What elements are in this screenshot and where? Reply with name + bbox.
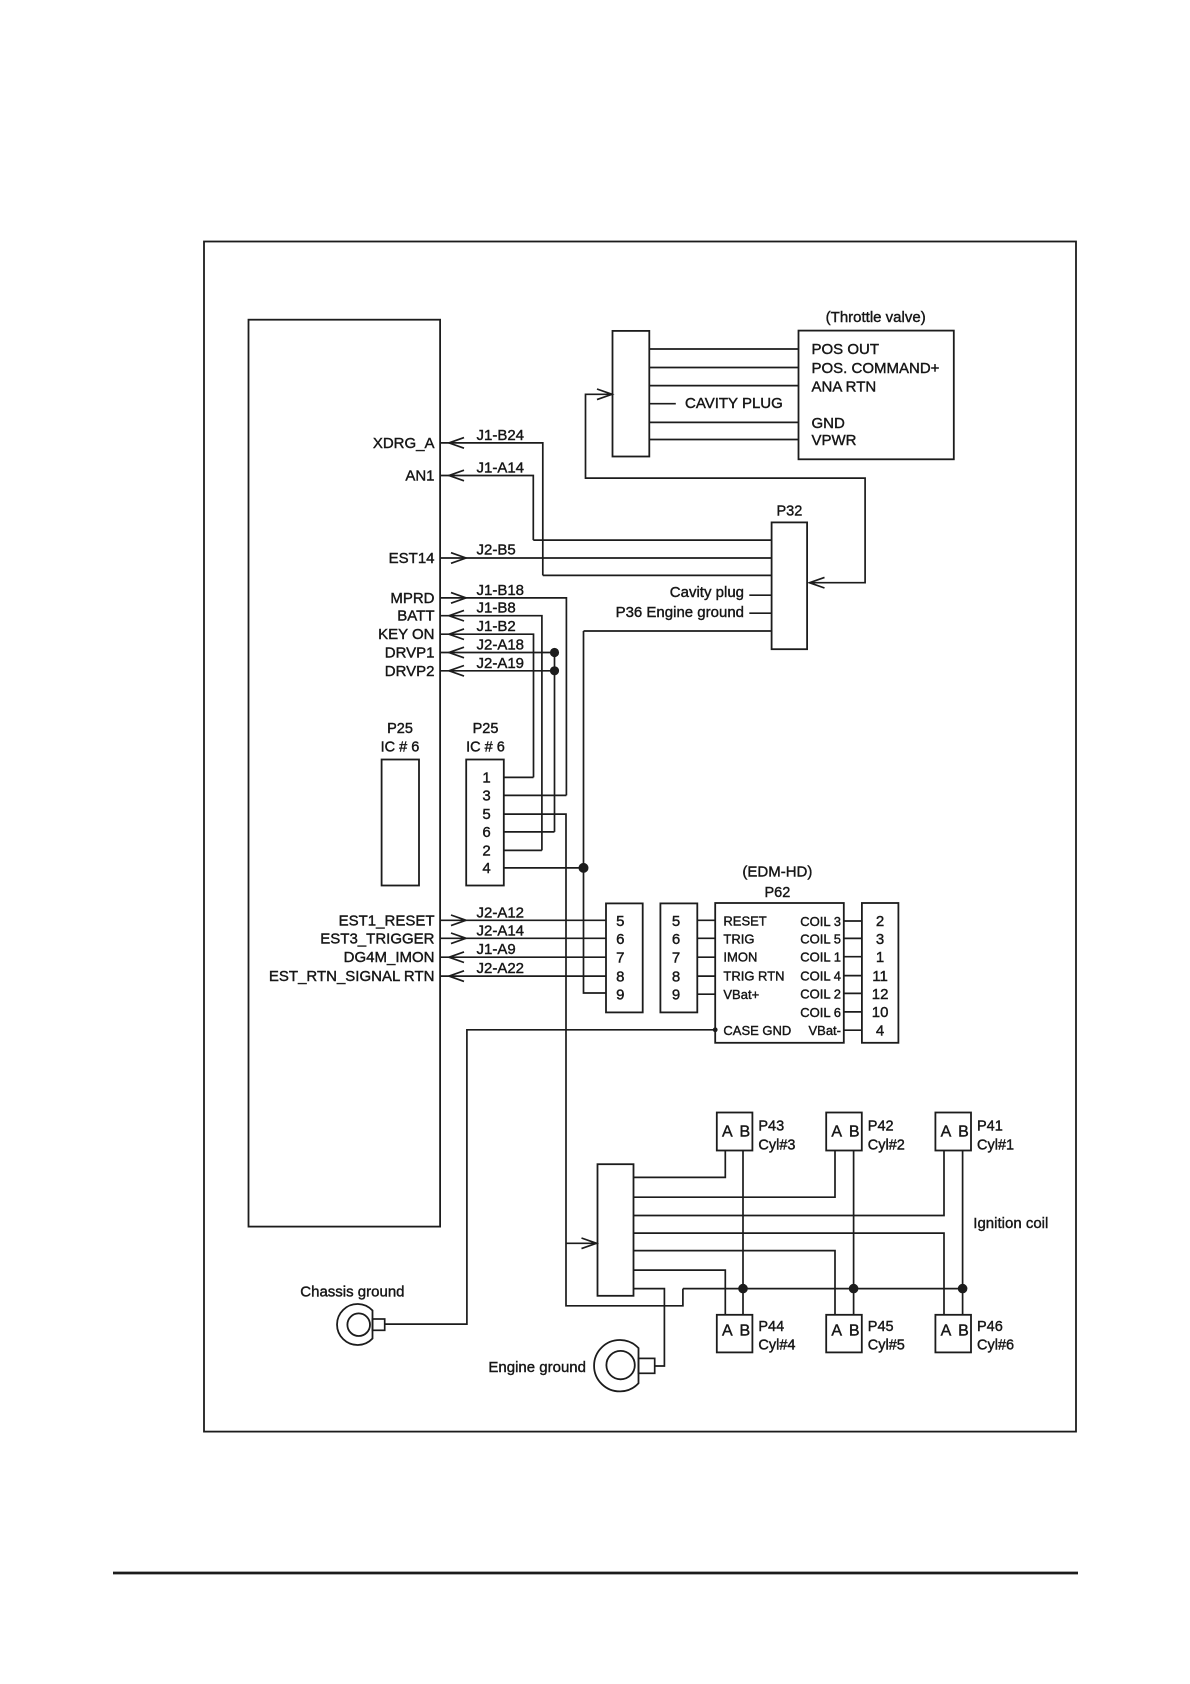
throttle harness connector box [613,331,650,457]
wire coil 6 A (P46) [634,1233,945,1315]
svg-text:4: 4 [482,860,490,877]
junction DRVP2 [550,666,559,675]
wire P32 bottom pin to ground net [584,630,772,632]
svg-text:P62: P62 [764,885,790,901]
svg-text:J1-B2: J1-B2 [477,618,516,635]
svg-text:VPWR: VPWR [812,432,857,449]
chassis ground symbol [337,1304,385,1345]
svg-text:5: 5 [616,913,624,930]
svg-text:A: A [722,1124,733,1141]
svg-text:B: B [739,1323,750,1340]
svg-text:CASE GND: CASE GND [723,1023,791,1038]
svg-text:10: 10 [872,1004,889,1021]
svg-text:TRIG RTN: TRIG RTN [723,969,784,984]
svg-text:COIL 3: COIL 3 [800,914,841,929]
svg-text:VBat+: VBat+ [723,987,759,1002]
inline connector box B pins 5-9 [660,903,697,1012]
junction CASE GND at P62 [713,1027,718,1032]
svg-text:B: B [849,1124,860,1141]
wire P43 B to P44 B [742,1151,744,1315]
svg-text:ANA RTN: ANA RTN [812,379,877,396]
junction B rail / P44 B [738,1284,748,1294]
svg-text:6: 6 [672,931,680,948]
wire P62 coil pin stub y=956.7 [844,956,862,958]
wire VPWR [649,439,798,441]
wire coil 2 A (P42) [634,1151,836,1198]
svg-text:COIL 2: COIL 2 [800,986,841,1001]
svg-text:12: 12 [872,986,889,1003]
connector box P25 IC#6 [466,760,504,886]
svg-text:P44: P44 [758,1319,784,1335]
svg-text:B: B [958,1124,969,1141]
arrowhead MPRD out of ECM [451,593,466,604]
wire coil 4 A (P44) [634,1270,726,1315]
arrowhead into P32 [810,577,825,588]
wire AN1 J1-A14 [440,476,533,541]
svg-text:RESET: RESET [723,913,766,928]
svg-text:KEY ON: KEY ON [378,626,434,643]
junction B rail / P45 B [849,1284,859,1294]
wire ANA RTN [649,385,798,387]
svg-text:J2-A14: J2-A14 [477,922,525,939]
svg-text:J2-A12: J2-A12 [477,904,525,921]
svg-text:B: B [958,1323,969,1340]
svg-text:P25: P25 [387,721,413,737]
wire IC pin 1 to KEY ON net [504,776,534,778]
svg-text:Cyl#1: Cyl#1 [977,1138,1014,1154]
svg-text:9: 9 [672,987,680,1004]
svg-text:J2-A19: J2-A19 [477,655,525,672]
wire P62 coil pin stub y=938.4 [844,937,862,939]
wire POS. COMMAND+ [649,367,798,369]
wire P32 engine ground stub [749,612,771,614]
wire MPRD J1-B18 [440,598,566,796]
svg-text:6: 6 [616,931,624,948]
wire ignition coil B rail [683,1288,963,1290]
svg-text:P43: P43 [758,1119,784,1135]
wire throttle connector to P32 [586,394,866,582]
throttle valve box [799,331,954,460]
wire inline box B pin to P62 at y=938.3 [697,937,715,939]
svg-text:DG4M_IMON: DG4M_IMON [344,949,435,966]
arrowhead DRVP2 into ECM [449,666,464,677]
wire IC pin 3 to MPRD net [504,794,567,796]
wire EST_RTN_SIGNAL RTN J2-A22 [440,975,606,977]
svg-text:P32: P32 [776,504,802,520]
svg-text:6: 6 [482,824,490,841]
wire KEY ON J1-B2 [440,634,533,777]
svg-text:TRIG: TRIG [723,931,754,946]
wire into ignition connector [566,1242,598,1244]
coil connector P45 box [826,1315,862,1353]
svg-text:9: 9 [616,987,624,1004]
junction IC pin 4 / ground net [579,863,589,873]
coil connector P44 box [717,1315,753,1353]
svg-text:2: 2 [876,913,884,930]
svg-text:AN1: AN1 [405,468,434,485]
svg-text:BATT: BATT [397,608,434,625]
arrowhead EST_RTN into ECM [449,971,464,982]
wire P62 coil pin stub y=975.6 [844,975,862,977]
svg-text:CAVITY PLUG: CAVITY PLUG [685,395,783,412]
svg-text:2: 2 [482,842,490,859]
svg-text:P41: P41 [977,1119,1003,1135]
wire coil 5 A (P45) [634,1251,836,1315]
wire ground net P32 to inline pin 9 [584,631,607,993]
svg-text:5: 5 [482,806,490,823]
svg-text:IC # 6: IC # 6 [466,740,505,756]
wire BATT J1-B8 [440,616,542,851]
connector pin box P62 right [862,903,899,1043]
svg-text:J1-B18: J1-B18 [477,582,525,599]
wire P62 coil pin stub y=1011.9 [844,1011,862,1013]
svg-text:EST3_TRIGGER: EST3_TRIGGER [320,930,434,947]
wire P32 cavity plug stub [749,594,771,596]
connector P32 box [772,522,808,649]
wire P42 B to P45 B [853,1151,855,1315]
wire P62 coil pin stub y=1030.2 [844,1029,862,1031]
wire CASE GND to chassis ground [385,1030,716,1324]
svg-text:J1-B24: J1-B24 [477,427,525,444]
svg-text:8: 8 [672,969,680,986]
svg-text:P42: P42 [868,1119,894,1135]
svg-text:3: 3 [482,787,490,804]
svg-text:POS. COMMAND+: POS. COMMAND+ [812,360,940,377]
wire IC pin 2 to BATT net [504,849,542,851]
svg-text:J1-A14: J1-A14 [477,460,525,477]
svg-text:Engine ground: Engine ground [488,1359,586,1376]
svg-text:(Throttle valve): (Throttle valve) [826,309,926,326]
wire inline box B pin to P62 at y=994.2 [697,993,715,995]
svg-text:1: 1 [482,769,490,786]
ECM module box [249,320,441,1227]
ignition harness connector box [598,1164,634,1296]
IC box internal P25 IC#6 [382,760,419,886]
svg-text:7: 7 [672,950,680,967]
svg-text:P45: P45 [868,1319,894,1335]
arrowhead EST14 out of ECM [451,553,466,564]
svg-text:1: 1 [876,949,884,966]
wire XDRG_A J1-B24 [440,443,543,576]
svg-text:MPRD: MPRD [390,590,434,607]
svg-text:COIL 6: COIL 6 [800,1005,841,1020]
wire IC pin 6 to DRVP net [504,831,555,833]
coil connector P42 box [826,1113,862,1151]
svg-text:A: A [831,1323,842,1340]
svg-text:DRVP2: DRVP2 [385,663,435,680]
svg-text:VBat-: VBat- [808,1023,841,1038]
arrowhead DG4M_IMON into ECM [449,952,464,963]
wire POS OUT [649,348,798,350]
coil connector P46 box [935,1315,971,1353]
svg-text:4: 4 [876,1022,884,1039]
wire DRVP2 J2-A19 [440,670,554,672]
svg-text:8: 8 [616,969,624,986]
svg-text:A: A [831,1124,842,1141]
svg-text:GND: GND [812,415,846,432]
footer rule [113,1572,1078,1575]
svg-text:IMON: IMON [723,950,757,965]
arrowhead BATT into ECM [449,610,464,621]
svg-text:11: 11 [872,968,888,985]
EDM-HD P62 box [715,903,844,1043]
svg-text:A: A [941,1323,952,1340]
svg-text:P25: P25 [473,721,499,737]
svg-text:B: B [849,1323,860,1340]
svg-text:EST1_RESET: EST1_RESET [339,912,435,929]
diagram border frame [204,242,1076,1432]
coil connector P41 box [935,1113,971,1151]
svg-text:COIL 4: COIL 4 [800,969,841,984]
wire GND [649,421,798,423]
wire EST3_TRIGGER J2-A14 [440,937,606,939]
svg-text:7: 7 [616,950,624,967]
inline connector box A pins 5-9 [606,903,643,1012]
svg-text:Chassis ground: Chassis ground [300,1283,404,1300]
coil connector P43 box [717,1113,753,1151]
svg-text:A: A [941,1124,952,1141]
wire IC pin 5 down to ignition coil rail [504,814,683,1306]
svg-text:Cavity plug: Cavity plug [670,584,744,601]
svg-text:Cyl#4: Cyl#4 [758,1338,795,1354]
wire P41 B to P46 B [962,1151,964,1315]
wire AN1 to P32 pin [533,539,771,541]
junction B rail / P46 B [958,1284,968,1294]
wire P62 coil pin stub y=921 [844,920,862,922]
wire DRVP net down to IC pin 6 [554,653,556,832]
arrowhead EST1_RESET out of ECM [451,915,466,926]
svg-text:Ignition coil: Ignition coil [973,1215,1048,1232]
wire IC pin 4 to engine ground net [504,867,584,869]
wire inline box B pin to P62 at y=920.3 [697,919,715,921]
svg-text:J2-B5: J2-B5 [477,542,516,559]
svg-text:POS OUT: POS OUT [812,341,880,358]
arrowhead DRVP1 into ECM [449,647,464,658]
wire coil 1 A (P41) [634,1151,945,1216]
svg-text:Cyl#3: Cyl#3 [758,1138,795,1154]
svg-text:P46: P46 [977,1319,1003,1335]
arrowhead XDRG_A into ECM [449,438,464,449]
svg-text:J2-A18: J2-A18 [477,637,525,654]
svg-text:(EDM-HD): (EDM-HD) [742,864,812,881]
svg-text:J2-A22: J2-A22 [477,960,525,977]
svg-text:5: 5 [672,913,680,930]
wire cavity plug stub [649,403,676,405]
svg-text:COIL 5: COIL 5 [800,931,841,946]
engine ground symbol [594,1340,655,1391]
svg-text:3: 3 [876,931,884,948]
svg-text:Cyl#2: Cyl#2 [868,1138,905,1154]
wire EST14 to P32 pin [440,557,771,559]
svg-text:A: A [722,1323,733,1340]
wire P62 coil pin stub y=993.4 [844,992,862,994]
svg-text:DRVP1: DRVP1 [385,645,435,662]
svg-text:P36 Engine ground: P36 Engine ground [616,604,744,621]
wire XDRG_A to P32 pin [543,574,772,576]
svg-text:B: B [739,1124,750,1141]
wire EST1_RESET J2-A12 [440,919,606,921]
wire coil 3 A (P43) [634,1151,726,1178]
svg-text:EST_RTN_SIGNAL RTN: EST_RTN_SIGNAL RTN [269,968,435,985]
svg-text:J1-A9: J1-A9 [477,941,516,958]
svg-text:EST14: EST14 [389,550,435,567]
svg-text:XDRG_A: XDRG_A [373,435,435,452]
svg-text:Cyl#5: Cyl#5 [868,1338,905,1354]
arrowhead EST3_TRIGGER out of ECM [451,933,466,944]
wire connector to engine ground [634,1289,665,1366]
wire inline box B pin to P62 at y=976.1 [697,975,715,977]
svg-text:J1-B8: J1-B8 [477,600,516,617]
arrowhead into throttle connector [597,389,612,400]
arrowhead AN1 into ECM [449,470,464,481]
svg-text:Cyl#6: Cyl#6 [977,1338,1014,1354]
arrowhead KEY ON into ECM [449,629,464,640]
wire DRVP1 J2-A18 [440,652,554,654]
svg-text:IC # 6: IC # 6 [381,740,420,756]
arrowhead into ignition connector [582,1238,597,1249]
junction DRVP1 [550,648,559,657]
wire inline box B pin to P62 at y=957.2 [697,956,715,958]
svg-text:COIL 1: COIL 1 [800,950,841,965]
wire DG4M_IMON J1-A9 [440,956,606,958]
